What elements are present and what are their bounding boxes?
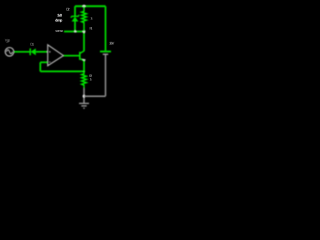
AC source V_pp: [5, 48, 14, 57]
svg-text:D2: D2: [66, 8, 69, 12]
resistor R2: [82, 71, 87, 88]
svg-text:R1: R1: [90, 26, 93, 30]
wire top rail: [75, 5, 106, 7]
svg-text:3v3: 3v3: [57, 14, 62, 18]
ground: [79, 103, 89, 108]
wire collector up to sense node: [83, 32, 85, 52]
node: sense/R1/collector junction dot: [83, 30, 86, 33]
wire battery return vertical: [105, 54, 107, 96]
wire zener to sense row: [74, 22, 76, 32]
wire sense row: [64, 31, 84, 33]
wire source to D1: [14, 51, 30, 53]
node: rail/R1 junction dot: [83, 5, 86, 8]
zener diode D2: [71, 15, 79, 22]
transistor Q1 (NPN): [80, 51, 86, 62]
battery V2 36V: [100, 6, 111, 54]
svg-text:36V: 36V: [109, 42, 114, 46]
node: R2/battery-return/ground junction dot: [83, 95, 86, 98]
diode D1: [30, 48, 36, 55]
wire emitter down to node: [83, 61, 85, 72]
wire D1 to op-amp + input: [36, 51, 48, 53]
svg-text:D1: D1: [30, 42, 34, 46]
svg-text:1k: 1k: [90, 78, 93, 82]
wire op-amp inverting input stub: [40, 61, 47, 63]
svg-text:V_pp: V_pp: [5, 39, 11, 43]
resistor R1: [82, 6, 87, 31]
op-amp U1: [48, 45, 64, 66]
wire feedback bottom horizontal to emitter node: [40, 70, 84, 72]
svg-text:1k: 1k: [90, 16, 93, 20]
labels: [5, 8, 115, 82]
wire R2 bottom to ground node (0V gray): [83, 88, 85, 103]
wire feedback left vertical: [39, 62, 41, 71]
svg-text:sense: sense: [55, 29, 63, 33]
wire battery return horizontal: [84, 95, 106, 97]
node: emitter/R2/feedback junction dot: [83, 70, 85, 72]
wire rail down to zener D2: [74, 6, 76, 16]
svg-text:clamp: clamp: [55, 19, 63, 23]
wire op-amp output to base: [63, 55, 79, 57]
node: zener/sense junction dot: [74, 30, 76, 32]
